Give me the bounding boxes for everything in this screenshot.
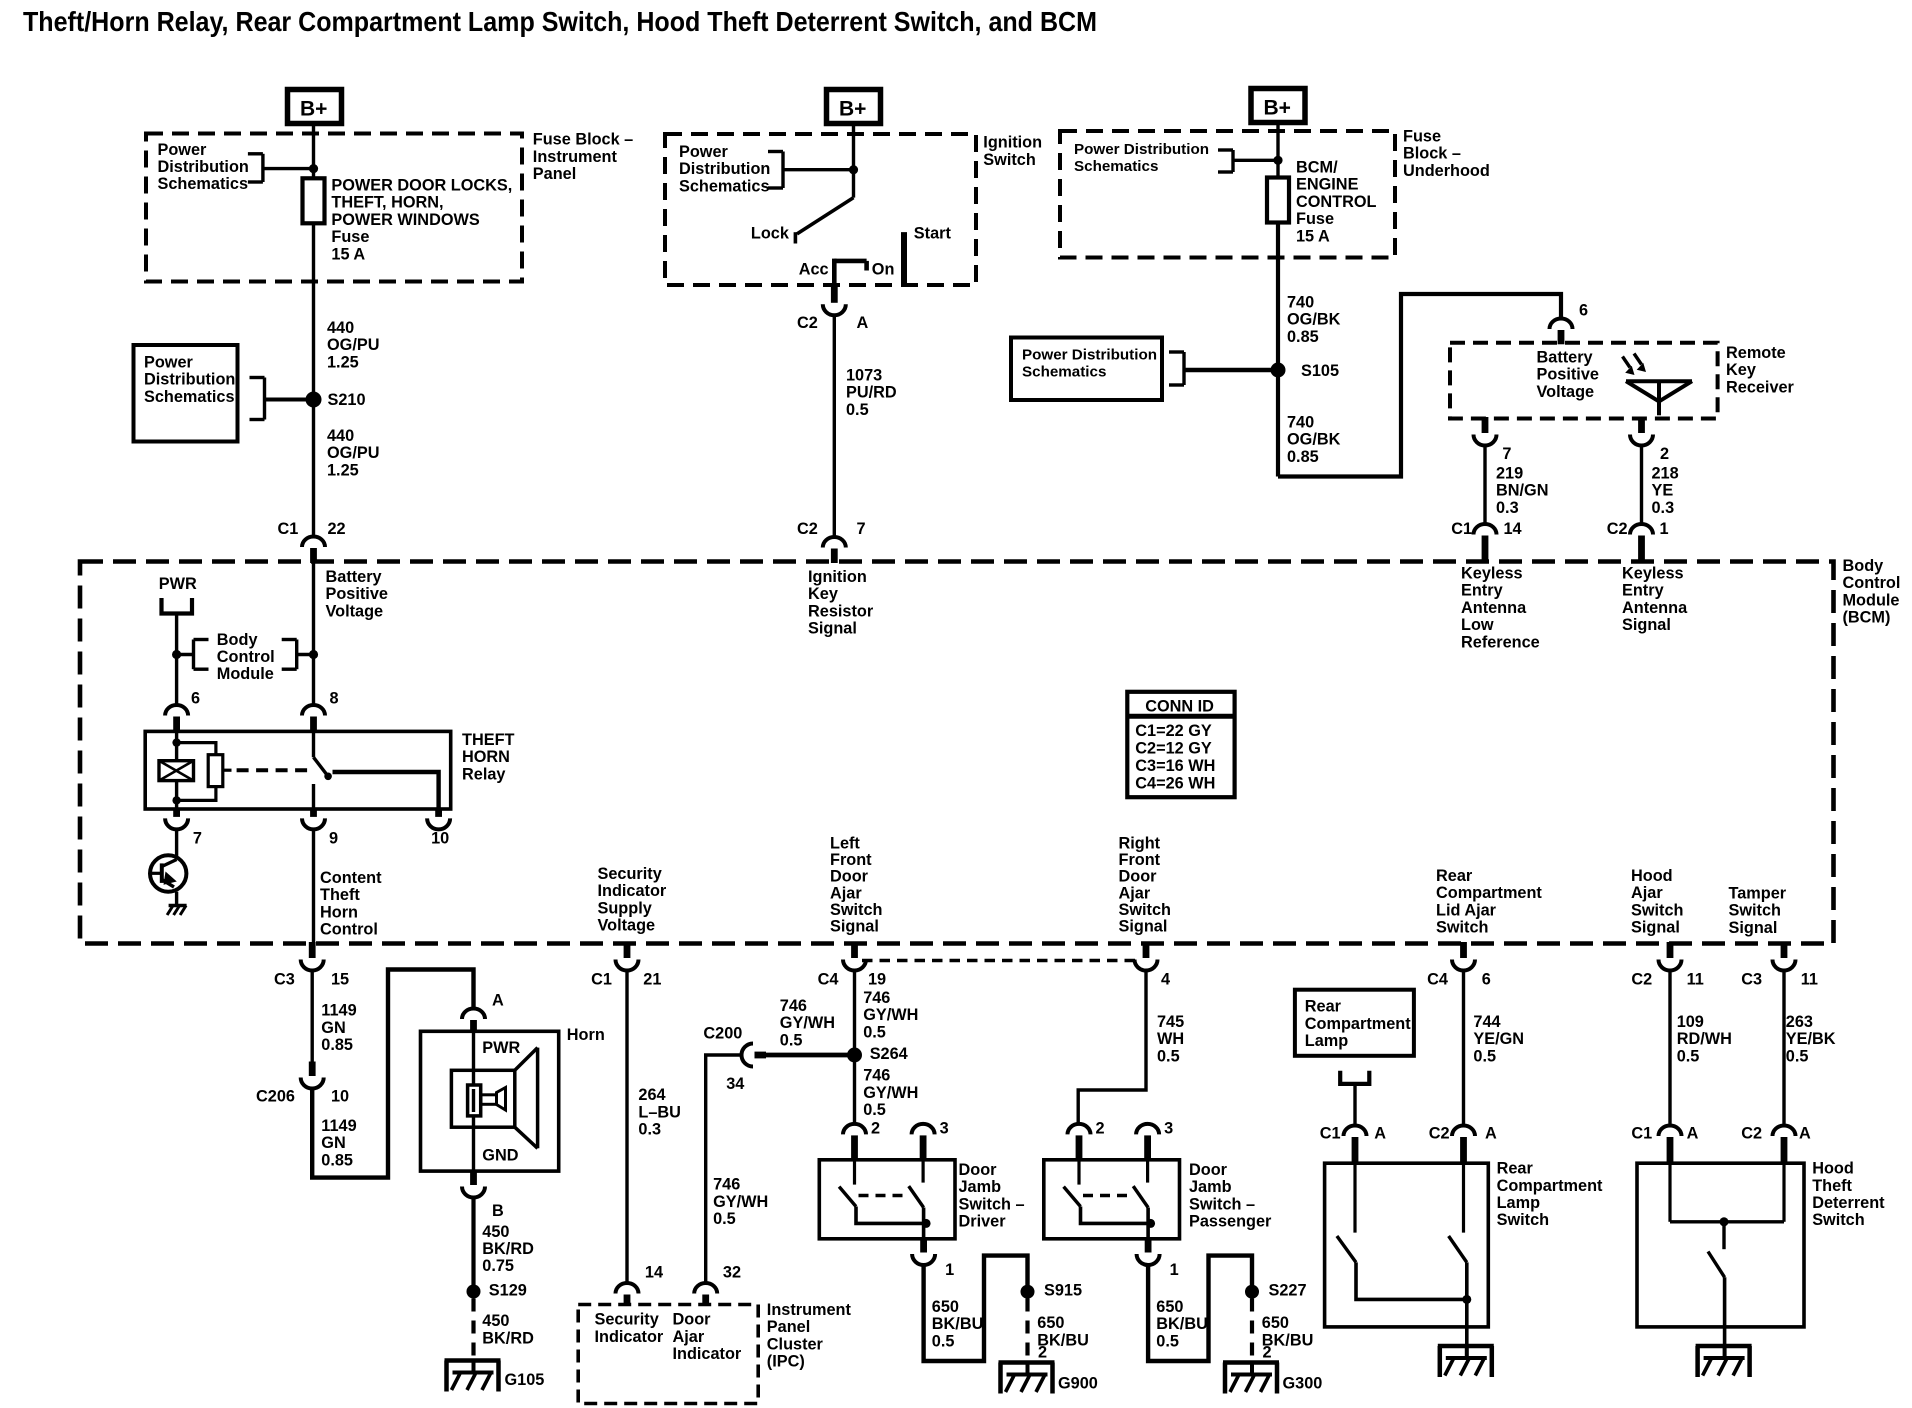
svg-text:A: A: [1799, 1125, 1811, 1143]
svg-text:C2: C2: [797, 314, 818, 332]
svg-text:CONN ID: CONN ID: [1145, 698, 1214, 716]
svg-text:A: A: [492, 992, 504, 1010]
svg-text:7: 7: [1502, 445, 1511, 463]
svg-text:PWR: PWR: [482, 1039, 520, 1057]
svg-text:C2: C2: [1741, 1125, 1762, 1143]
svg-text:G300: G300: [1283, 1375, 1323, 1393]
svg-text:2: 2: [1263, 1344, 1272, 1362]
svg-text:A: A: [1485, 1125, 1497, 1143]
svg-text:C2: C2: [1607, 520, 1628, 538]
svg-text:B+: B+: [839, 98, 866, 121]
svg-text:C206: C206: [256, 1088, 295, 1106]
svg-text:6: 6: [191, 690, 200, 708]
svg-text:C2: C2: [1429, 1125, 1450, 1143]
svg-text:A: A: [1687, 1125, 1699, 1143]
svg-text:G900: G900: [1058, 1375, 1098, 1393]
svg-text:9: 9: [329, 830, 338, 848]
svg-text:10: 10: [331, 1088, 349, 1106]
svg-text:S915: S915: [1044, 1282, 1082, 1300]
svg-text:C2: C2: [1631, 971, 1652, 989]
svg-text:On: On: [872, 261, 895, 279]
svg-text:S227: S227: [1269, 1282, 1307, 1300]
svg-text:C3: C3: [1741, 971, 1762, 989]
svg-text:4: 4: [1161, 971, 1170, 989]
svg-text:B: B: [492, 1202, 504, 1220]
svg-text:2: 2: [1096, 1120, 1105, 1138]
svg-text:Horn: Horn: [567, 1026, 605, 1044]
svg-text:6: 6: [1579, 302, 1588, 320]
svg-text:14: 14: [645, 1264, 663, 1282]
svg-text:21: 21: [643, 971, 661, 989]
svg-text:6: 6: [1482, 971, 1491, 989]
svg-text:8: 8: [330, 690, 339, 708]
svg-text:C200: C200: [703, 1025, 742, 1043]
svg-text:Lock: Lock: [751, 224, 790, 242]
svg-text:Acc: Acc: [799, 261, 829, 279]
svg-text:C1: C1: [591, 971, 612, 989]
svg-text:15: 15: [331, 971, 349, 989]
svg-text:1: 1: [945, 1261, 954, 1279]
svg-text:Start: Start: [914, 224, 952, 242]
svg-text:C1: C1: [1320, 1125, 1341, 1143]
svg-text:A: A: [1374, 1125, 1386, 1143]
svg-text:C1: C1: [278, 520, 299, 538]
svg-text:14: 14: [1504, 520, 1522, 538]
svg-text:C1: C1: [1451, 520, 1472, 538]
svg-text:G105: G105: [505, 1371, 545, 1389]
svg-text:BatteryPositiveVoltage: BatteryPositiveVoltage: [326, 568, 388, 620]
svg-text:S210: S210: [328, 391, 366, 409]
svg-text:B+: B+: [1264, 97, 1291, 120]
svg-text:19: 19: [868, 971, 886, 989]
svg-text:11: 11: [1801, 971, 1818, 989]
svg-text:SecurityIndicator: SecurityIndicator: [595, 1311, 664, 1346]
svg-text:10: 10: [431, 830, 449, 848]
svg-text:11: 11: [1687, 971, 1704, 989]
svg-text:Theft/Horn Relay, Rear Compart: Theft/Horn Relay, Rear Compartment Lamp …: [23, 6, 1097, 37]
svg-text:C2: C2: [797, 520, 818, 538]
svg-text:2: 2: [1660, 445, 1669, 463]
svg-text:32: 32: [723, 1264, 741, 1282]
svg-text:3: 3: [940, 1120, 949, 1138]
svg-text:PWR: PWR: [159, 575, 197, 593]
svg-text:S105: S105: [1301, 362, 1339, 380]
svg-text:7: 7: [193, 830, 202, 848]
svg-text:7: 7: [857, 520, 866, 538]
svg-text:B+: B+: [300, 98, 327, 121]
svg-text:1: 1: [1660, 520, 1669, 538]
svg-text:A: A: [857, 314, 869, 332]
svg-text:1: 1: [1170, 1261, 1179, 1279]
svg-text:2: 2: [871, 1120, 880, 1138]
svg-text:34: 34: [726, 1075, 744, 1093]
svg-text:2: 2: [1038, 1344, 1047, 1362]
svg-text:IgnitionSwitch: IgnitionSwitch: [983, 134, 1042, 169]
svg-text:C4: C4: [1427, 971, 1448, 989]
svg-text:C1=22 GYC2=12 GYC3=16 WHC4=26: C1=22 GYC2=12 GYC3=16 WHC4=26 WH: [1135, 722, 1215, 792]
svg-text:S129: S129: [489, 1282, 527, 1300]
svg-text:GND: GND: [482, 1146, 518, 1164]
svg-text:S264: S264: [870, 1045, 908, 1063]
svg-text:C4: C4: [818, 971, 839, 989]
svg-text:C3: C3: [274, 971, 295, 989]
svg-text:22: 22: [328, 520, 346, 538]
svg-text:C1: C1: [1631, 1125, 1652, 1143]
svg-text:3: 3: [1164, 1120, 1173, 1138]
svg-text:BatteryPositiveVoltage: BatteryPositiveVoltage: [1537, 349, 1599, 401]
